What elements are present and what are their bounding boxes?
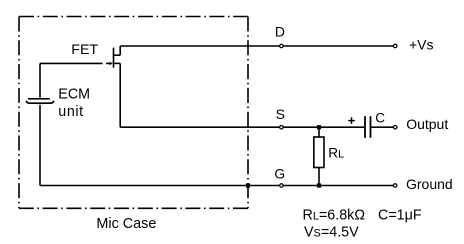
svg-text:D: D (275, 24, 285, 40)
svg-text:unit: unit (58, 104, 83, 120)
svg-text:C=1μF: C=1μF (378, 208, 422, 224)
node S terminal (280, 125, 284, 129)
wire drain to +Vs (120, 45, 393, 47)
wire S to RL (318, 127, 320, 137)
svg-text:Ground: Ground (406, 176, 453, 192)
junction case-ground (246, 183, 250, 187)
svg-text:RL=6.8kΩ: RL=6.8kΩ (303, 208, 366, 224)
svg-text:+Vs: +Vs (409, 37, 434, 53)
wire ECM bottom vertical (39, 105, 41, 186)
junction S-RL (317, 125, 321, 129)
wire gate (40, 62, 111, 64)
svg-text:G: G (274, 167, 285, 182)
node D terminal (280, 44, 284, 48)
capacitor C polarity plus (348, 117, 355, 124)
wire ground rail (40, 185, 393, 187)
resistor RL (314, 137, 324, 168)
node +Vs terminal (393, 44, 397, 48)
wire source to capacitor (120, 126, 364, 128)
wire ECM top vertical (39, 63, 41, 97)
mic case dashed boundary (19, 17, 248, 209)
svg-text:FET: FET (71, 42, 98, 58)
capacitor C plates (365, 116, 371, 138)
svg-text:ECM: ECM (58, 86, 90, 102)
junction RL-ground (317, 183, 321, 187)
transistor FET (114, 46, 121, 127)
wire capacitor to output (372, 126, 394, 128)
ECM unit label (58, 86, 90, 120)
node Ground terminal (393, 184, 397, 188)
svg-text:C: C (375, 110, 385, 125)
svg-text:Mic Case: Mic Case (96, 216, 156, 232)
svg-text:Output: Output (406, 116, 448, 132)
svg-text:S: S (276, 106, 285, 122)
node Output terminal (393, 125, 397, 129)
svg-text:VS=4.5V: VS=4.5V (304, 224, 359, 240)
node G terminal (280, 184, 284, 188)
wire RL to ground (318, 168, 320, 186)
svg-text:RL: RL (328, 145, 344, 160)
capacitor ECM capsule (26, 99, 53, 103)
FET gate arrow (110, 62, 113, 65)
